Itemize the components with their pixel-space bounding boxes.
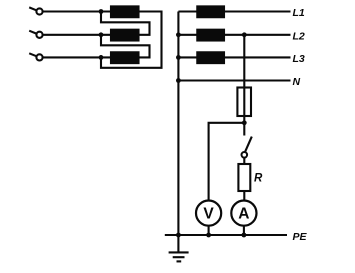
voltmeter V	[196, 201, 221, 226]
wire node1 to W2 right	[101, 12, 150, 35]
wire voltmeter to PE	[208, 226, 210, 235]
svg-text:PE: PE	[293, 231, 308, 243]
fuse F1	[237, 88, 251, 117]
line PE	[165, 234, 287, 236]
svg-text:R: R	[254, 173, 263, 185]
source winding on L3	[197, 52, 224, 63]
switch S1	[242, 137, 252, 158]
node fuse-V junction	[242, 120, 247, 125]
source winding on L2	[197, 30, 224, 41]
wire W1 right to node3	[101, 12, 162, 68]
line L1	[178, 10, 290, 12]
resistor R	[238, 164, 250, 191]
source winding on L1	[197, 6, 224, 17]
wire L2 tap to fuse	[243, 35, 245, 123]
terminal T2	[29, 31, 42, 38]
svg-text:V: V	[203, 206, 214, 223]
ammeter A	[231, 201, 256, 226]
line N	[178, 79, 290, 81]
node L2 tap	[242, 32, 247, 37]
winding W3	[111, 52, 139, 63]
node PE-bus	[176, 233, 181, 238]
wire resistor to ammeter	[243, 191, 245, 200]
svg-text:N: N	[293, 76, 301, 88]
node 3	[99, 55, 104, 60]
line L3	[178, 56, 290, 58]
terminal T3	[29, 53, 42, 60]
ground	[169, 235, 189, 261]
star-point bus wire	[177, 12, 179, 236]
svg-text:A: A	[238, 206, 249, 223]
wire node2 to W3 right	[101, 35, 150, 58]
svg-text:L1: L1	[293, 7, 305, 19]
wire T1 to winding W1	[43, 10, 111, 12]
node bus-L2	[176, 32, 181, 37]
winding W1	[111, 6, 139, 17]
wire switch to resistor	[243, 158, 245, 165]
wire T3 to winding W3	[43, 56, 111, 58]
node bus-N	[176, 78, 181, 83]
wire junction to voltmeter	[209, 123, 245, 201]
svg-text:L2: L2	[293, 30, 305, 42]
node PE-ammeter	[242, 233, 247, 238]
winding W2	[111, 30, 139, 41]
svg-text:L3: L3	[293, 53, 305, 65]
node PE-voltmeter	[206, 233, 211, 238]
node 1	[99, 9, 104, 14]
terminal T1	[29, 7, 42, 14]
line L2	[178, 34, 290, 36]
wire T2 to winding W2	[43, 34, 111, 36]
node bus-L3	[176, 55, 181, 60]
wire junction to switch	[243, 123, 245, 136]
node 2	[99, 32, 104, 37]
wire ammeter to PE	[243, 226, 245, 235]
